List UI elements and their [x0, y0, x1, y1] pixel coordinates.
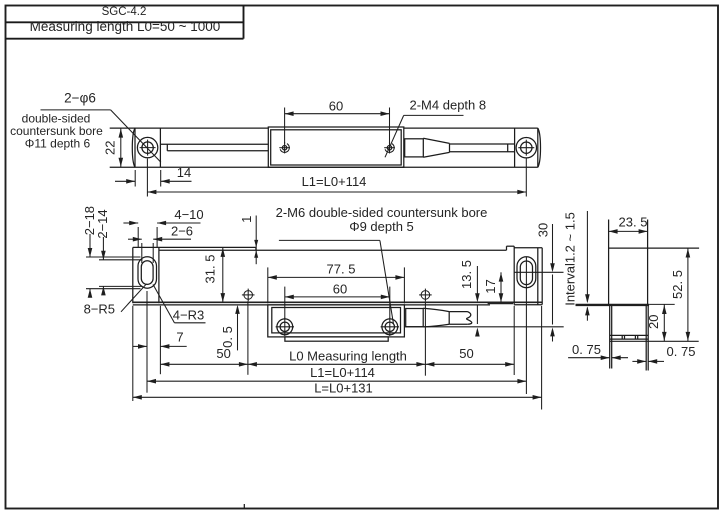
end view thin bottom extension — [649, 303, 675, 305]
front head screw right — [381, 318, 399, 336]
svg-text:SGC-4.2: SGC-4.2 — [102, 6, 147, 18]
dimension 31.5 — [203, 247, 226, 302]
svg-text:2−14: 2−14 — [95, 209, 110, 238]
dimension 20 — [646, 304, 667, 341]
dimension 77.5 — [268, 261, 405, 303]
label 4-R3 — [153, 284, 206, 322]
svg-text:14: 14 — [177, 165, 191, 180]
svg-text:0. 75: 0. 75 — [572, 342, 601, 357]
top view reading head outer — [268, 127, 404, 167]
dimension 4-10 — [123, 207, 203, 248]
svg-text:L0 Measuring length: L0 Measuring length — [289, 348, 407, 363]
dimension 1 — [239, 216, 258, 265]
front connector neck — [406, 309, 424, 327]
top view cable — [450, 144, 515, 152]
end view bottom reference line — [610, 340, 699, 342]
front left ear slot outer — [138, 257, 157, 288]
title block — [6, 6, 244, 39]
interval mounting surface mark — [576, 304, 650, 306]
top view reading head inner — [271, 130, 402, 165]
top view connector cone — [423, 138, 449, 157]
svg-text:60: 60 — [333, 281, 347, 296]
datum target mark right — [419, 289, 432, 302]
dimension 60 front — [285, 281, 390, 319]
front head screw left — [276, 318, 294, 336]
svg-text:23. 5: 23. 5 — [619, 214, 648, 229]
dimension 0.75 left — [568, 342, 628, 360]
svg-text:31. 5: 31. 5 — [203, 255, 218, 284]
dimension 30 — [536, 223, 555, 342]
svg-text:2-M6 double-sided countersunk: 2-M6 double-sided countersunk bore — [276, 205, 488, 220]
dimension 0.5 — [220, 305, 240, 351]
top view left countersunk bore — [137, 137, 157, 157]
svg-text:2-M4 depth 8: 2-M4 depth 8 — [410, 98, 487, 113]
svg-text:2−6: 2−6 — [171, 224, 193, 239]
dimension L1=L0+114 top view — [147, 159, 526, 197]
svg-text:Interval1.2 ~ 1.5: Interval1.2 ~ 1.5 — [563, 212, 578, 306]
frame fold tick — [243, 504, 245, 509]
svg-text:13. 5: 13. 5 — [459, 260, 474, 289]
svg-text:50: 50 — [459, 346, 473, 361]
svg-text:8−R5: 8−R5 — [84, 302, 115, 317]
dimension 52.5 — [670, 248, 690, 341]
label 2-phi6 — [41, 90, 161, 162]
svg-text:0. 5: 0. 5 — [220, 326, 235, 348]
svg-text:20: 20 — [646, 315, 661, 329]
svg-text:30: 30 — [536, 223, 551, 237]
label double-sided countersunk bore — [10, 112, 103, 151]
dimension 2-14 — [95, 209, 143, 295]
svg-text:1: 1 — [239, 216, 254, 223]
dimension 17 — [483, 272, 503, 302]
svg-text:60: 60 — [329, 98, 343, 113]
front left ear slot inner — [141, 261, 153, 285]
svg-text:L=L0+131: L=L0+131 — [314, 380, 373, 395]
label 8-R5 — [84, 284, 147, 317]
dimension L0 measuring length — [248, 348, 426, 366]
svg-text:7: 7 — [176, 330, 183, 345]
datum target mark left — [242, 289, 255, 302]
screw centerline — [405, 326, 564, 328]
dimension 22 — [102, 128, 123, 167]
front right ear slot outer — [517, 257, 536, 288]
top view scale slot left — [160, 144, 268, 151]
svg-text:77. 5: 77. 5 — [327, 261, 356, 276]
svg-text:52. 5: 52. 5 — [670, 270, 685, 299]
svg-text:Φ9 depth 5: Φ9 depth 5 — [349, 219, 414, 234]
front head outer — [268, 305, 405, 337]
front right ear slot inner — [520, 261, 532, 285]
right slot centerline — [514, 271, 563, 273]
svg-text:0. 75: 0. 75 — [667, 344, 696, 359]
front body outline — [133, 246, 542, 305]
label 2-M4 depth 8 — [385, 98, 486, 158]
front head bottom lip — [285, 337, 388, 341]
dimension 2-6 — [128, 224, 193, 263]
dimension 50 left — [160, 346, 248, 367]
svg-text:22: 22 — [102, 141, 117, 155]
top view M4 screw right — [384, 142, 395, 153]
dimension 7 — [133, 330, 187, 349]
top view body outline — [110, 128, 541, 167]
svg-text:Measuring length L0=50 ~ 1000: Measuring length L0=50 ~ 1000 — [30, 19, 221, 34]
svg-text:2−φ6: 2−φ6 — [64, 90, 96, 105]
front cable with break — [449, 312, 472, 325]
dimension 14 — [115, 165, 192, 187]
top view connector neck — [405, 139, 424, 157]
dimension 23.5 — [609, 214, 648, 233]
svg-text:17: 17 — [483, 279, 498, 293]
top view M4 screw left — [279, 142, 290, 153]
end view lower walls — [610, 306, 649, 371]
svg-text:L1=L0+114: L1=L0+114 — [302, 174, 367, 189]
dimension 60 top view — [285, 98, 390, 143]
svg-text:4−R3: 4−R3 — [173, 308, 204, 323]
svg-text:L1=L0+114: L1=L0+114 — [310, 365, 375, 380]
dimension L=L0+131 — [133, 380, 542, 399]
interval dimension — [563, 211, 590, 321]
top view right countersunk bore — [516, 138, 536, 158]
front head inner — [272, 308, 401, 333]
end view body — [609, 220, 700, 305]
end view foot strip — [610, 335, 649, 339]
svg-text:50: 50 — [216, 346, 230, 361]
dimension 13.5 — [459, 260, 480, 336]
dimension 0.75 right — [632, 344, 695, 364]
front connector horn — [423, 308, 449, 327]
dimension 50 right — [425, 346, 514, 367]
svg-text:4−10: 4−10 — [174, 207, 203, 222]
label 2-M6 countersunk — [276, 205, 488, 324]
bottom extension lines — [133, 257, 542, 410]
dimension L1=L0+114 front — [147, 365, 526, 383]
svg-text:Φ11 depth 6: Φ11 depth 6 — [25, 137, 91, 151]
dimension 2-18 — [82, 206, 141, 298]
